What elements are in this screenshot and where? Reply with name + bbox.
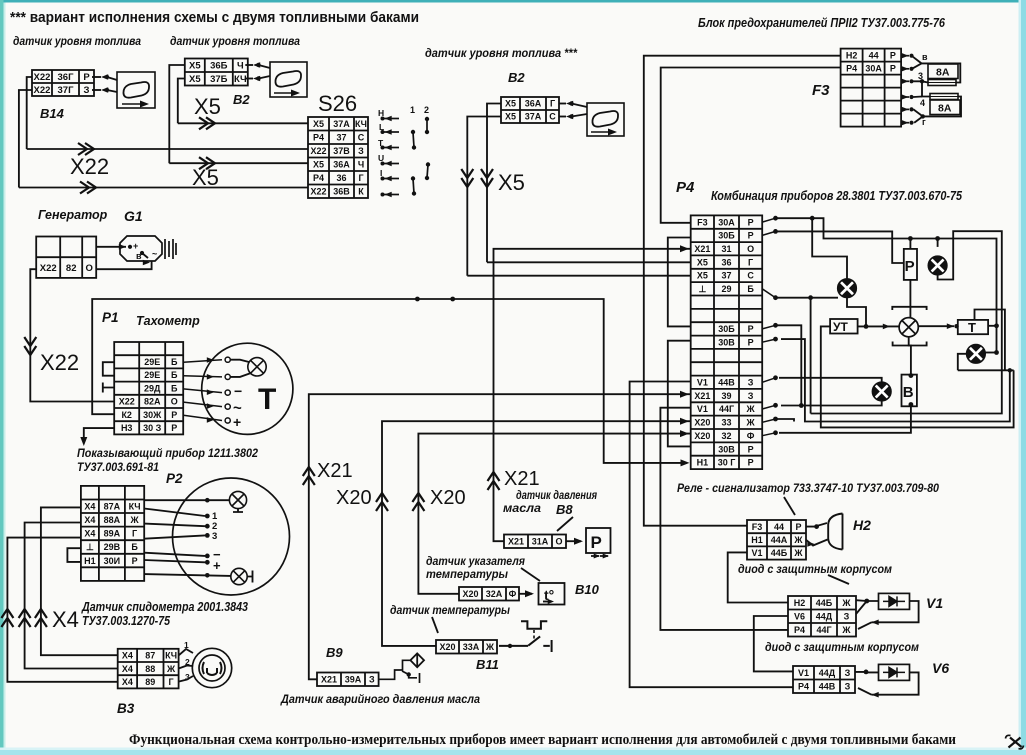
svg-text:33: 33 xyxy=(721,418,731,428)
svg-text:Р: Р xyxy=(748,444,754,454)
F3 fuse link letters xyxy=(918,52,928,127)
svg-text:Х22: Х22 xyxy=(34,85,51,96)
svg-text:Р4: Р4 xyxy=(313,133,324,143)
wire X20 riser to B11 xyxy=(382,421,691,646)
svg-text:88А: 88А xyxy=(104,515,121,525)
svg-text:датчик давления: датчик давления xyxy=(516,490,597,502)
svg-text:V6: V6 xyxy=(794,612,805,622)
wire P2 lamp bottom lead xyxy=(144,574,231,576)
svg-text:З: З xyxy=(748,378,754,388)
tachometer dial P1 xyxy=(202,343,293,434)
svg-text:*** вариант исполнения схемы с: *** вариант исполнения схемы с двумя топ… xyxy=(10,10,419,26)
svg-text:Н2: Н2 xyxy=(853,517,871,533)
wire P2 87A to B3 87 xyxy=(41,507,118,655)
svg-text:Х20: Х20 xyxy=(694,431,710,441)
gauge t box (B10 indicator) xyxy=(539,583,565,605)
svg-text:31: 31 xyxy=(721,244,731,254)
svg-text:З: З xyxy=(84,85,90,96)
gauge V (voltmeter) xyxy=(902,375,917,407)
svg-text:УТ: УТ xyxy=(833,320,848,334)
wire fuse row2 slant xyxy=(912,63,922,68)
svg-text:В8: В8 xyxy=(556,502,573,517)
connector table B3 xyxy=(118,649,179,689)
svg-text:87А: 87А xyxy=(104,502,121,512)
wire B14 contact slant 1 xyxy=(107,77,117,80)
svg-text:I: I xyxy=(380,168,382,178)
wire P1 bracket rows 2-3 xyxy=(103,362,114,376)
svg-text:G1: G1 xyxy=(124,208,143,224)
svg-text:Г: Г xyxy=(132,529,137,539)
svg-text:В11: В11 xyxy=(476,657,499,672)
wire bracket over T xyxy=(975,310,1005,371)
wire P2 minus xyxy=(144,553,205,556)
junction node on 30 bus xyxy=(415,297,420,302)
wire P2 88A to B3 88 xyxy=(25,523,118,669)
connector table P2 xyxy=(81,486,144,581)
wire relay row1 to horn xyxy=(806,523,827,527)
svg-text:Р4: Р4 xyxy=(846,63,857,73)
wire relay callout xyxy=(784,497,795,515)
svg-text:36Б: 36Б xyxy=(210,61,228,72)
svg-text:29Д: 29Д xyxy=(144,383,161,393)
chevron X5 vertical 1 xyxy=(461,169,473,187)
svg-text:ТУ37.003.1270-75: ТУ37.003.1270-75 xyxy=(82,614,171,628)
wire B2 contact slant 2 xyxy=(259,76,271,79)
svg-text:89А: 89А xyxy=(104,529,121,539)
svg-text:О: О xyxy=(555,537,562,547)
svg-text:44Д: 44Д xyxy=(816,612,833,622)
wire fuse link 3 to fuse1 xyxy=(922,81,928,82)
wire lamp HL4 top xyxy=(779,378,882,382)
svg-text:датчик уровня топлива: датчик уровня топлива xyxy=(13,36,142,48)
wire row6 common to lamp HL2 xyxy=(776,297,839,299)
svg-text:F3: F3 xyxy=(752,522,763,532)
wire P2 lamp top lead xyxy=(144,499,229,501)
wire F3 row1 left down to relay xyxy=(644,56,841,526)
svg-text:ТУ37.003.691-81: ТУ37.003.691-81 xyxy=(77,460,159,474)
svg-text:Р: Р xyxy=(171,423,177,433)
svg-text:Н: Н xyxy=(378,108,384,118)
svg-text:82А: 82А xyxy=(144,397,161,407)
wire diode V6 return loop xyxy=(872,672,919,694)
svg-text:37Б: 37Б xyxy=(210,74,228,85)
chevrons X4 xyxy=(1,609,13,627)
svg-text:Х4: Х4 xyxy=(84,515,95,525)
generator G1 symbol xyxy=(120,236,176,261)
wire fuse net 3 xyxy=(912,81,931,96)
svg-text:Генератор: Генератор xyxy=(38,208,108,222)
svg-text:Х21: Х21 xyxy=(317,460,353,482)
generator terminal labels xyxy=(133,241,157,261)
wire common drop xyxy=(810,298,812,414)
svg-text:Х4: Х4 xyxy=(84,502,95,512)
svg-text:Х5: Х5 xyxy=(697,257,708,267)
svg-text:датчик температуры: датчик температуры xyxy=(390,605,510,617)
wire B3 3 xyxy=(179,676,193,682)
svg-text:Х20: Х20 xyxy=(462,589,478,599)
svg-text:Х21: Х21 xyxy=(504,468,540,490)
svg-text:3: 3 xyxy=(212,531,217,542)
svg-text:Р: Р xyxy=(748,231,754,241)
wire lamp to terminal 1 xyxy=(230,360,249,362)
svg-text:29: 29 xyxy=(721,284,731,294)
speedometer lamp top xyxy=(229,491,246,508)
wire diode1 callout xyxy=(828,575,849,584)
wire B14 row2 contact xyxy=(92,89,101,91)
svg-text:Р: Р xyxy=(795,522,801,532)
svg-text:Х22: Х22 xyxy=(70,154,109,179)
svg-text:датчик указателя: датчик указателя xyxy=(426,556,525,568)
svg-text:30В: 30В xyxy=(718,338,735,348)
lamp HL1 xyxy=(928,256,947,275)
svg-text:Х5: Х5 xyxy=(194,94,221,119)
svg-text:С: С xyxy=(549,112,556,122)
connector table B2 (left tank sensor) xyxy=(185,59,248,86)
svg-text:Г: Г xyxy=(550,99,555,109)
chevron X22 vertical xyxy=(24,337,36,355)
svg-text:масла: масла xyxy=(503,503,542,515)
wire P2 bracket rows5-6 xyxy=(67,548,81,562)
diode V6 box xyxy=(879,664,910,680)
wire fuse net lower xyxy=(923,97,961,117)
wire relay row3 to V1 row1 xyxy=(728,552,788,602)
svg-text:F3: F3 xyxy=(812,82,830,99)
svg-text:30В: 30В xyxy=(718,444,735,454)
svg-text:30А: 30А xyxy=(865,63,882,73)
svg-text:В10: В10 xyxy=(575,582,600,597)
wire B3 2 xyxy=(179,666,193,669)
wire X5 bus upper (B2 to S26 row1) xyxy=(178,122,308,124)
wire G1 left to X22 vertical xyxy=(30,269,114,401)
wire X20 riser to B10 xyxy=(418,434,690,594)
wire fuse net upper xyxy=(912,56,961,83)
wire B14 contact slant 2 xyxy=(107,90,117,92)
fuse F1 8A xyxy=(928,64,958,86)
wire right link drop xyxy=(781,339,1010,421)
svg-text:С: С xyxy=(358,133,365,143)
tachometer terminals xyxy=(183,357,230,423)
svg-text:В9: В9 xyxy=(326,645,343,660)
wire B2mid row2 contact xyxy=(559,116,566,118)
wire B14 row2 to X22 bus xyxy=(19,90,32,188)
wire X21 riser to B8 xyxy=(494,249,691,541)
svg-text:⊥: ⊥ xyxy=(698,284,706,294)
svg-text:+: + xyxy=(233,414,241,430)
svg-text:Н2: Н2 xyxy=(846,50,858,60)
lamp HL2 xyxy=(838,279,857,298)
wire P1 row4 ground tick xyxy=(103,383,114,393)
wire stub P top xyxy=(909,239,911,249)
svg-text:30 З: 30 З xyxy=(143,423,162,433)
svg-text:Х21: Х21 xyxy=(321,675,337,685)
chevron X22 upper xyxy=(78,143,94,155)
voltage stabilizer UT xyxy=(830,319,858,334)
wire lamp HL1 bottom loop xyxy=(811,231,1002,413)
wire X5-37 to P4 row5 xyxy=(467,275,690,277)
svg-text:КЧ: КЧ xyxy=(165,651,177,661)
svg-text:Х5: Х5 xyxy=(313,119,324,129)
svg-text:Ж: Ж xyxy=(841,598,851,608)
svg-text:U: U xyxy=(378,153,384,163)
wire B2mid row1 to X5 down-bus xyxy=(487,104,501,263)
svg-text:Ж: Ж xyxy=(746,418,756,428)
ammeter crossed circle xyxy=(899,318,918,337)
svg-text:диод с защитным корпусом: диод с защитным корпусом xyxy=(765,640,919,654)
connector table P4 xyxy=(691,215,763,469)
svg-text:89: 89 xyxy=(145,677,155,687)
svg-text:З: З xyxy=(369,675,375,685)
svg-text:Х5: Х5 xyxy=(189,61,201,72)
wire B2 row1 contact xyxy=(245,64,253,66)
svg-text:Х5: Х5 xyxy=(505,112,516,122)
svg-text:Х20: Х20 xyxy=(439,642,455,652)
svg-text:Б: Б xyxy=(747,284,754,294)
svg-text:Г: Г xyxy=(748,257,753,267)
svg-text:Р4: Р4 xyxy=(313,173,324,183)
svg-text:30А: 30А xyxy=(718,217,735,227)
wire lamp HL4 bottom xyxy=(781,401,882,406)
wire G1 inner xyxy=(142,253,148,258)
svg-text:V1: V1 xyxy=(697,404,708,414)
fuel sender B2 middle symbol xyxy=(587,103,624,136)
svg-text:44: 44 xyxy=(774,522,784,532)
svg-text:+: + xyxy=(133,241,138,251)
svg-text:36А: 36А xyxy=(333,160,350,170)
diode V1 box xyxy=(879,593,910,609)
thermal switch B11 symbol xyxy=(499,621,552,652)
wire P4 row2 to row9 (30B bus) xyxy=(668,238,691,327)
svg-text:30Б: 30Б xyxy=(718,231,735,241)
wire B3 1 xyxy=(179,649,193,655)
wire V6 row1 to diode xyxy=(855,671,879,674)
svg-text:V1: V1 xyxy=(926,595,943,611)
svg-text:37: 37 xyxy=(336,133,346,143)
svg-text:36В: 36В xyxy=(333,187,350,197)
svg-text:+: + xyxy=(213,558,221,573)
svg-text:Р: Р xyxy=(591,533,602,552)
wire V bottom drop xyxy=(779,406,911,433)
svg-text:37: 37 xyxy=(721,271,731,281)
svg-text:Ж: Ж xyxy=(130,515,140,525)
svg-text:4: 4 xyxy=(920,98,925,108)
svg-text:Ж: Ж xyxy=(841,625,851,635)
svg-text:37В: 37В xyxy=(333,146,350,156)
svg-text:V6: V6 xyxy=(932,660,949,676)
svg-text:Х4: Х4 xyxy=(52,607,79,632)
svg-text:Н3: Н3 xyxy=(121,423,133,433)
svg-text:Х4: Х4 xyxy=(122,677,133,687)
svg-text:Х4: Х4 xyxy=(84,529,95,539)
watermark tool icon xyxy=(1006,735,1024,749)
svg-text:Х20: Х20 xyxy=(336,487,372,509)
chevron X21 right xyxy=(488,472,500,490)
wire bracket top xyxy=(892,307,926,310)
svg-text:V1: V1 xyxy=(751,548,762,558)
wire B2 row1 to X5 bus xyxy=(169,65,185,163)
svg-text:29Е: 29Е xyxy=(144,357,160,367)
svg-text:Т: Т xyxy=(258,383,276,416)
svg-text:S26: S26 xyxy=(318,91,357,116)
svg-text:36: 36 xyxy=(721,257,731,267)
svg-text:В: В xyxy=(903,384,914,401)
svg-text:88: 88 xyxy=(145,664,155,674)
wire right link 370 xyxy=(958,369,1014,371)
connector table F3 fuse block xyxy=(841,49,902,127)
svg-text:Х5: Х5 xyxy=(189,74,201,85)
wire gauge P bottom chain xyxy=(909,280,911,318)
svg-text:29В: 29В xyxy=(104,542,121,552)
wire B2 row2 contact xyxy=(245,78,253,80)
svg-text:Ж: Ж xyxy=(166,664,176,674)
svg-text:Р: Р xyxy=(748,217,754,227)
wire B10 to t box xyxy=(519,593,532,595)
svg-text:Х20: Х20 xyxy=(694,418,710,428)
fuse F2 8A xyxy=(930,94,960,115)
wire P2 89A to B3 89 xyxy=(7,538,117,682)
tachometer lamp xyxy=(248,358,266,376)
wire G1 row2 to brush xyxy=(97,261,152,269)
svg-text:Р: Р xyxy=(748,338,754,348)
svg-text:Р: Р xyxy=(132,556,138,566)
wire B2 contact slant 1 xyxy=(259,65,271,68)
wire bracket bottom xyxy=(893,342,927,346)
svg-text:44Б: 44Б xyxy=(816,598,833,608)
S26 switch column labels 1 2 xyxy=(410,105,429,115)
wire V6 row2 slant xyxy=(858,688,872,695)
svg-text:К2: К2 xyxy=(121,410,132,420)
svg-text:Ф: Ф xyxy=(509,589,517,599)
svg-text:в: в xyxy=(922,52,928,62)
S26 movable contacts column 2 xyxy=(425,117,430,180)
svg-text:1: 1 xyxy=(184,640,189,650)
svg-text:В2: В2 xyxy=(508,70,525,85)
svg-text:Б: Б xyxy=(171,370,178,380)
connector table P1 xyxy=(114,342,183,434)
wire lamp to terminal 2 xyxy=(230,373,251,377)
wire B2mid contact slant1 xyxy=(572,104,588,108)
chevron X5 vertical 2 xyxy=(481,169,493,187)
svg-text:30Ж: 30Ж xyxy=(143,410,162,420)
wire P4 row10 to row18 (30V bus) xyxy=(668,341,691,447)
svg-text:3: 3 xyxy=(185,672,190,682)
svg-text:33А: 33А xyxy=(463,642,480,652)
connector table G1 xyxy=(36,237,96,278)
svg-text:V1: V1 xyxy=(798,668,809,678)
svg-text:Х22: Х22 xyxy=(40,263,57,274)
svg-text:2: 2 xyxy=(424,105,429,115)
svg-text:Ж: Ж xyxy=(793,548,803,558)
svg-text:Х22: Х22 xyxy=(40,350,79,375)
svg-text:Х22: Х22 xyxy=(119,397,135,407)
wire V1 row1 to diode xyxy=(856,599,879,602)
svg-text:⊥: ⊥ xyxy=(86,542,94,552)
connector table B11 xyxy=(436,640,497,654)
svg-text:С: С xyxy=(747,271,754,281)
svg-text:Р4: Р4 xyxy=(798,682,809,692)
svg-text:О: О xyxy=(171,397,178,407)
svg-text:Датчик спидометра 2001.3843: Датчик спидометра 2001.3843 xyxy=(81,600,248,614)
wire P2 plus xyxy=(144,560,205,562)
svg-text:1: 1 xyxy=(410,105,415,115)
wire lamp HL3 right tap xyxy=(985,352,996,354)
svg-text:32А: 32А xyxy=(486,589,503,599)
svg-text:Н2: Н2 xyxy=(794,598,806,608)
svg-text:Х5: Х5 xyxy=(498,170,525,195)
wire G1 row1 to plus xyxy=(97,246,127,248)
svg-text:30 Г: 30 Г xyxy=(718,458,736,468)
svg-text:44В: 44В xyxy=(718,378,735,388)
svg-text:Х22: Х22 xyxy=(310,146,326,156)
svg-text:Н1: Н1 xyxy=(84,556,96,566)
wire V1 row2 slant to diode node xyxy=(856,601,867,614)
wire V1 row3 slant xyxy=(858,622,872,629)
wire X21 riser to B9 xyxy=(309,394,691,679)
svg-text:44Д: 44Д xyxy=(819,668,836,678)
svg-text:F3: F3 xyxy=(697,217,708,227)
wire feed row2 to gauge P xyxy=(776,231,904,263)
svg-text:В3: В3 xyxy=(117,701,135,716)
svg-text:44Г: 44Г xyxy=(816,625,831,635)
wire B11 callout xyxy=(432,617,438,633)
svg-text:Н1: Н1 xyxy=(697,458,709,468)
wire ammeter to V box xyxy=(909,337,911,375)
svg-text:О: О xyxy=(86,263,93,274)
wire B8 callout xyxy=(557,517,573,531)
wire HL2 to UT line xyxy=(847,298,866,327)
chevron X20 right xyxy=(412,493,424,511)
wire P2 lamp top ground xyxy=(233,509,243,512)
lamp HL3 xyxy=(967,345,986,364)
wire X5 bus lower (B2 to S26 row4) xyxy=(169,162,308,164)
chevron X21 left xyxy=(303,467,315,485)
svg-text:39А: 39А xyxy=(345,675,362,685)
wire P2 t3 xyxy=(144,535,205,538)
svg-text:Р4: Р4 xyxy=(676,179,695,196)
svg-text:Х21: Х21 xyxy=(694,391,710,401)
connector table B10 xyxy=(459,587,519,601)
svg-text:~: ~ xyxy=(152,249,157,259)
svg-text:Р4: Р4 xyxy=(794,625,805,635)
svg-text:Ж: Ж xyxy=(793,535,803,545)
wire X22 bus lower (B14 to S26) xyxy=(19,187,308,189)
connector table V1 xyxy=(788,596,856,637)
svg-text:Г: Г xyxy=(358,173,363,183)
horn H2 symbol xyxy=(828,514,842,550)
wire P4 row13 to V6 row2 (44V) xyxy=(630,382,793,688)
wire V1 row2 to V6 row1 (44D) xyxy=(754,616,793,671)
wire P2 t2 xyxy=(144,524,205,527)
gauge P box (B8 indicator) xyxy=(586,528,611,553)
svg-text:87: 87 xyxy=(145,651,155,661)
svg-text:44В: 44В xyxy=(819,682,836,692)
connector table B14 xyxy=(32,70,94,96)
wire UT left drop xyxy=(821,326,1014,427)
gauge T (temperature) xyxy=(958,320,988,334)
svg-text:36: 36 xyxy=(336,173,346,183)
connector table B2 middle xyxy=(501,97,559,123)
svg-text:Реле - сигнализатор 733.3747-1: Реле - сигнализатор 733.3747-10 ТУ37.003… xyxy=(677,481,939,495)
svg-text:Комбинация приборов 28.3801 ТУ: Комбинация приборов 28.3801 ТУ37.003.670… xyxy=(711,189,963,203)
svg-text:30И: 30И xyxy=(104,556,120,566)
fuel sender B14 symbol xyxy=(117,72,155,108)
svg-text:V1: V1 xyxy=(697,378,708,388)
svg-text:З: З xyxy=(845,682,851,692)
svg-text:Х4: Х4 xyxy=(122,664,133,674)
wire branch to lamp HL2 top xyxy=(812,218,847,279)
wire relay row2 to horn xyxy=(806,540,828,546)
fuel sender B2 symbol xyxy=(270,62,307,97)
svg-text:31А: 31А xyxy=(532,537,549,547)
